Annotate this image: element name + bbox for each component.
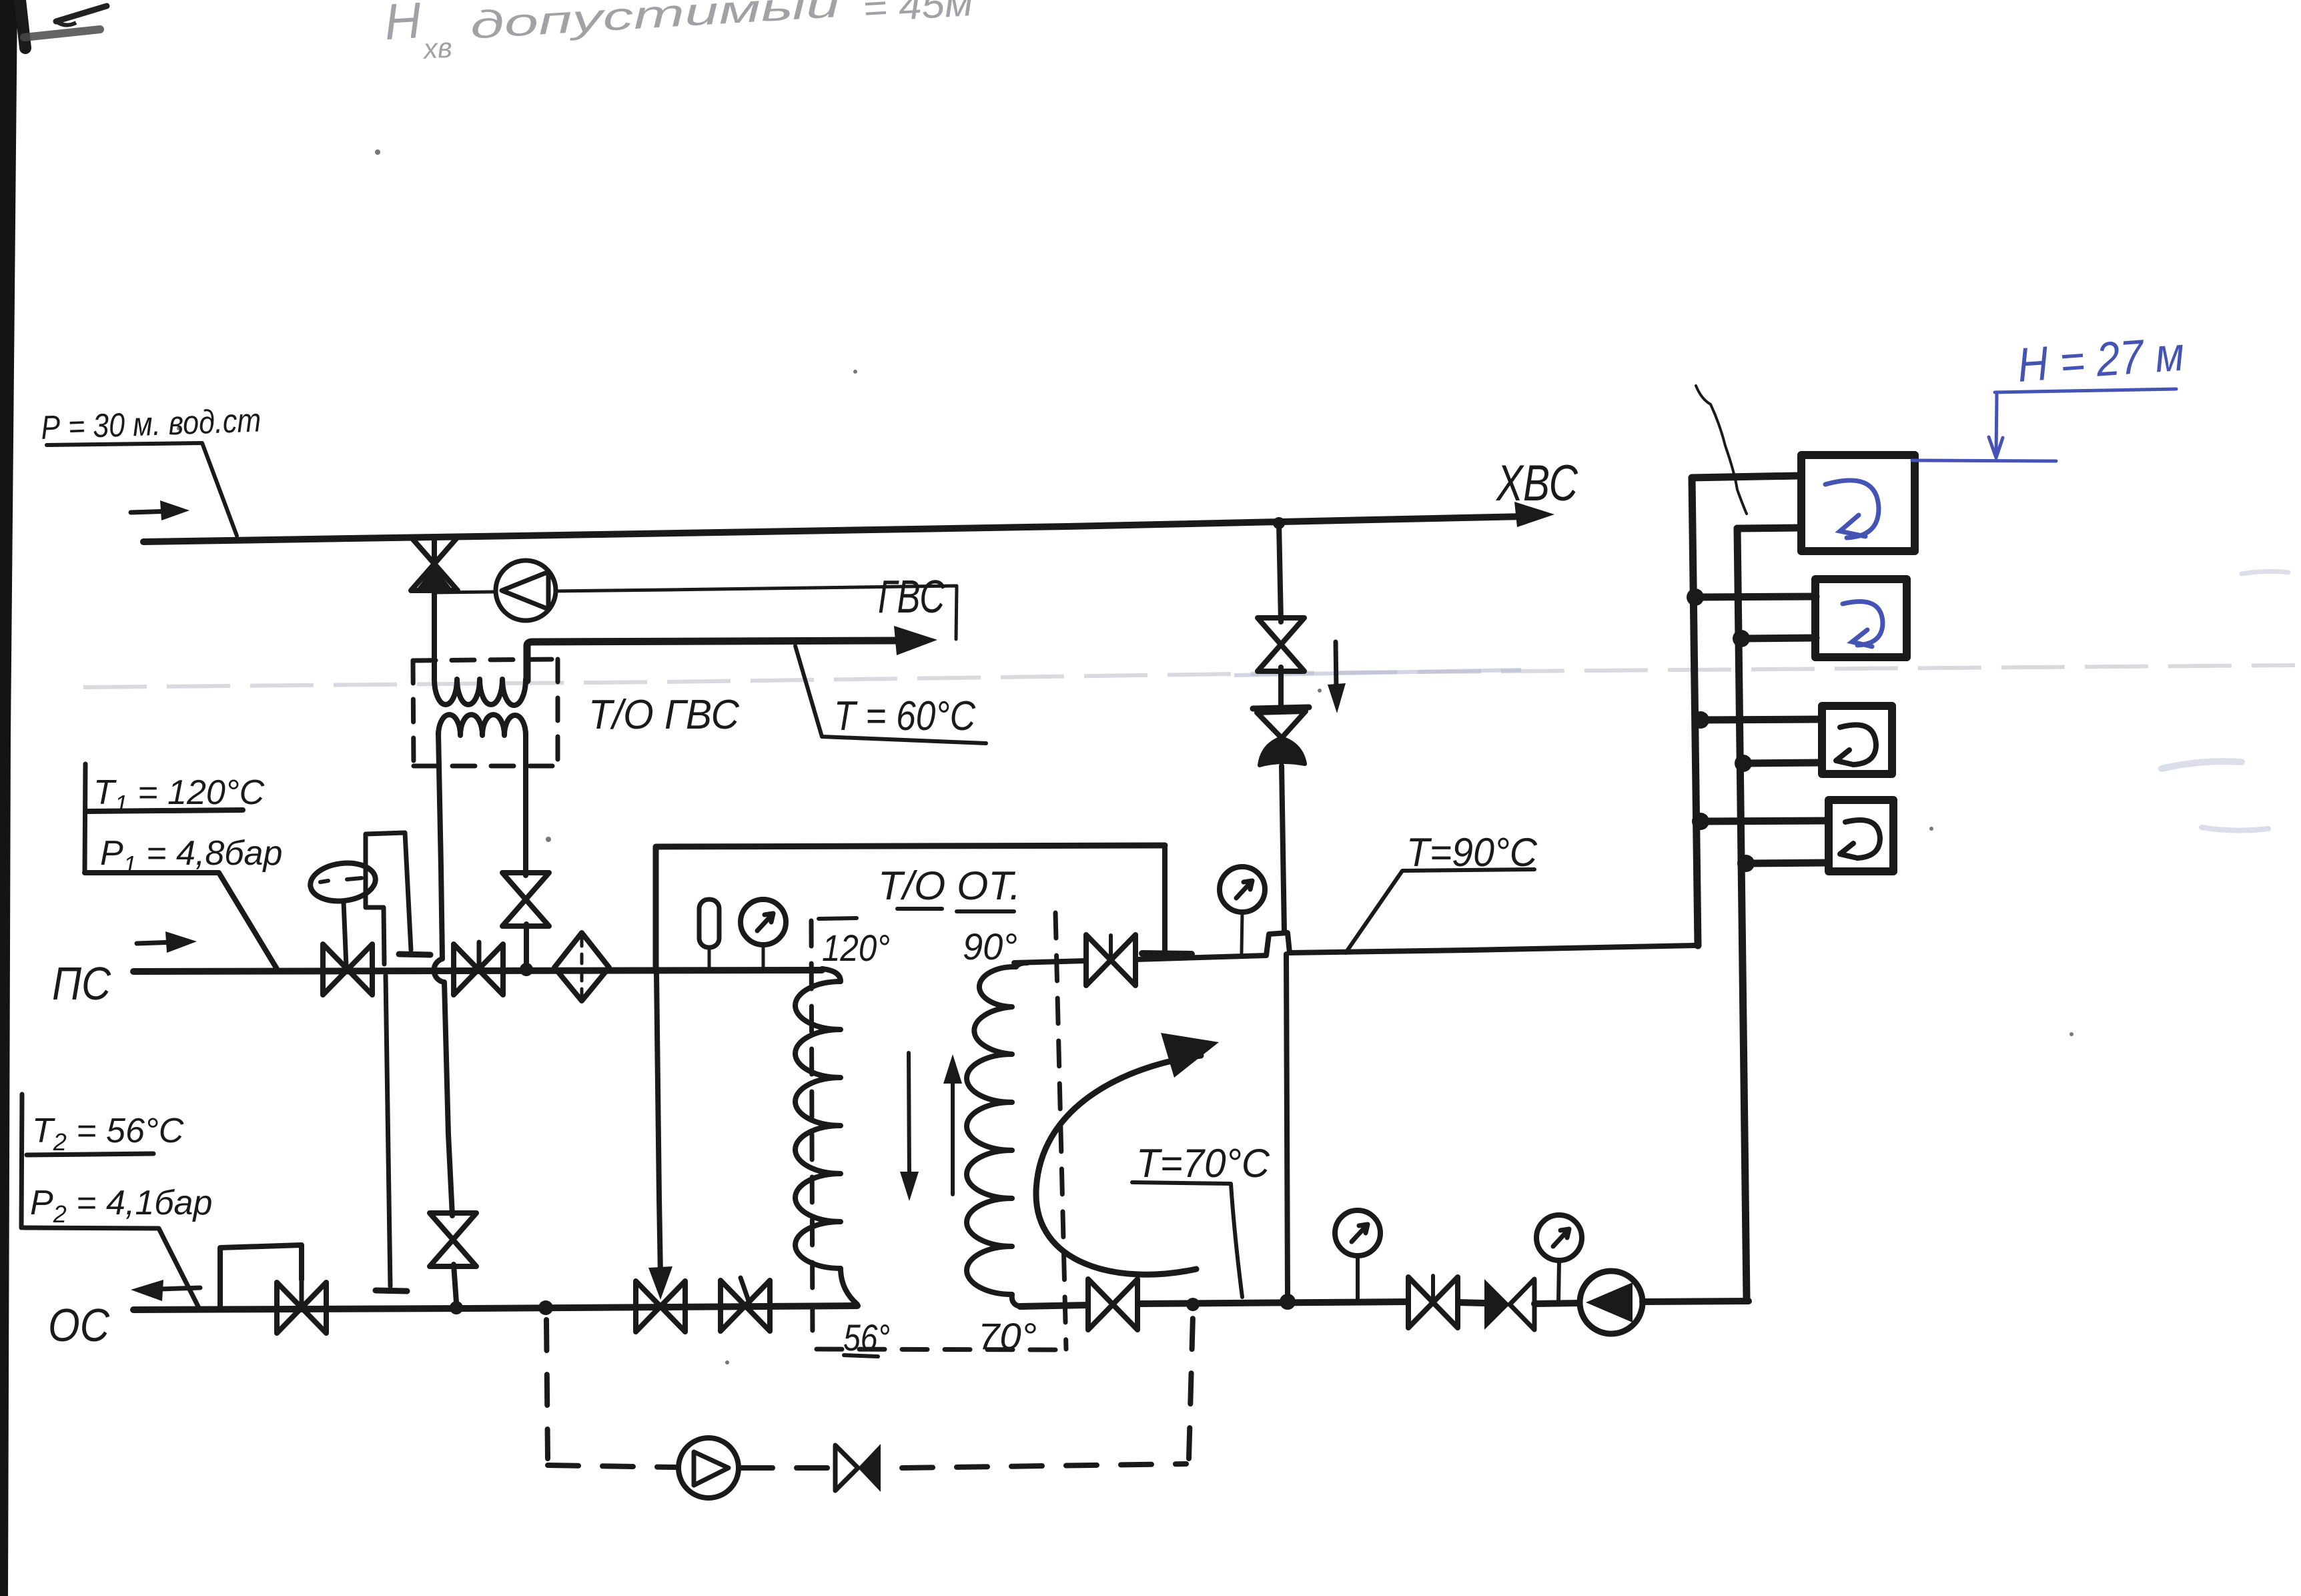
svg-text:Т = 60°С: Т = 60°С	[834, 693, 976, 739]
svg-text:ПС: ПС	[52, 957, 111, 1010]
svg-text:120°: 120°	[822, 927, 890, 969]
svg-text:Р = 30 м. вод.ст: Р = 30 м. вод.ст	[40, 402, 262, 446]
svg-text:90°: 90°	[963, 925, 1017, 967]
svg-text:хв: хв	[421, 31, 453, 65]
svg-text:Н: Н	[383, 0, 423, 51]
svg-text:56°: 56°	[843, 1316, 890, 1358]
svg-text:ОС: ОС	[48, 1299, 109, 1351]
svg-text:Т/О ГВС: Т/О ГВС	[588, 692, 740, 738]
svg-text:ХВС: ХВС	[1495, 455, 1578, 512]
svg-text:Т=90°С: Т=90°С	[1406, 830, 1538, 875]
svg-text:Т=70°С: Т=70°С	[1136, 1141, 1270, 1186]
svg-text:70°: 70°	[978, 1315, 1037, 1357]
svg-text:Т/О ОТ.: Т/О ОТ.	[878, 863, 1021, 908]
svg-text:ГВС: ГВС	[878, 570, 945, 623]
